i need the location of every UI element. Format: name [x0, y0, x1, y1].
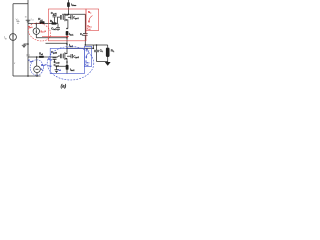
wire M2 source left	[57, 62, 68, 74]
red box B node X	[86, 9, 99, 31]
bottom rail node Isrc2	[36, 75, 38, 77]
blue fraction bar Y	[85, 62, 89, 64]
svg-text:(C): (C)	[26, 53, 30, 57]
resistor Rs2	[39, 56, 44, 58]
battery Vb	[26, 19, 31, 21]
svg-text:Rb2: Rb2	[48, 58, 52, 62]
node column tap2	[66, 43, 68, 45]
capacitor Cin2	[55, 66, 59, 73]
red current path arrow	[42, 36, 68, 38]
dependent source gm2	[66, 65, 69, 70]
node rail-Ibias	[68, 14, 70, 16]
node M2 source	[66, 61, 68, 63]
svg-text:vb2: vb2	[58, 69, 61, 73]
svg-text:gm1v: gm1v	[41, 30, 47, 34]
node rail2 left	[66, 48, 68, 50]
resistor Rs1	[40, 21, 45, 23]
dependent source gm1	[66, 31, 69, 35]
wire stub y43	[46, 42, 68, 44]
ground bias	[24, 44, 28, 45]
red dashed ellipse gm1 loop	[26, 20, 53, 44]
node out-Cx	[85, 44, 87, 46]
node bias-bottom	[27, 75, 29, 77]
node column tap1	[66, 37, 68, 39]
resistor Rb1	[52, 22, 57, 24]
red arrow node X	[89, 16, 93, 23]
red box A	[48, 9, 86, 41]
capacitor CL	[94, 45, 99, 62]
current source gm-bottom	[34, 66, 41, 73]
node Cin2 tap	[56, 66, 58, 68]
node bias-gnd junction	[27, 43, 29, 45]
wire CL to RL bottom	[97, 61, 108, 63]
blue box D	[50, 49, 84, 74]
wire input bottom	[28, 56, 58, 58]
output wire	[85, 45, 107, 48]
svg-text:ro1: ro1	[31, 18, 34, 22]
capacitor Cx	[83, 34, 88, 45]
node input gate tap	[36, 23, 38, 25]
svg-text:vs2: vs2	[48, 66, 51, 69]
transistor M1	[60, 15, 61, 20]
wire bias rail vertical	[27, 0, 29, 76]
resistor RL	[107, 45, 109, 62]
current source Iin	[10, 34, 17, 41]
red fraction bar X	[87, 26, 92, 28]
blue dashed ellipse bottom loop	[47, 46, 94, 80]
svg-text:(a): (a)	[61, 83, 67, 88]
blue arrow node Y	[86, 53, 89, 59]
ground RL	[105, 62, 111, 66]
wire input top	[28, 23, 58, 25]
wire gate link	[58, 17, 61, 24]
capacitor Cgs2	[67, 55, 71, 57]
blue dashed ellipse gm2 loop	[30, 60, 43, 75]
supply rail top	[62, 13, 85, 15]
svg-text:gm2v: gm2v	[41, 64, 47, 68]
wire source to Isrc1	[36, 37, 67, 39]
svg-text:Rs2: Rs2	[39, 53, 43, 57]
bottom section rail	[67, 47, 93, 49]
wire rail corner down	[84, 14, 86, 33]
node out-rail2	[93, 48, 95, 50]
bottom rail wire	[13, 75, 41, 77]
current source gm-top	[33, 28, 39, 34]
node column source M1	[66, 28, 68, 30]
transistor M2	[58, 56, 60, 57]
current source Ibias	[67, 0, 69, 14]
wire top-left loop	[13, 4, 28, 76]
wire column mid	[66, 35, 68, 48]
node input2 tap	[36, 56, 38, 58]
blue box E node Y	[84, 46, 91, 66]
capacitor Cin1	[56, 24, 60, 31]
capacitor Cgs1	[68, 16, 71, 18]
node out-CL	[96, 44, 98, 46]
svg-text:vy: vy	[41, 68, 43, 72]
